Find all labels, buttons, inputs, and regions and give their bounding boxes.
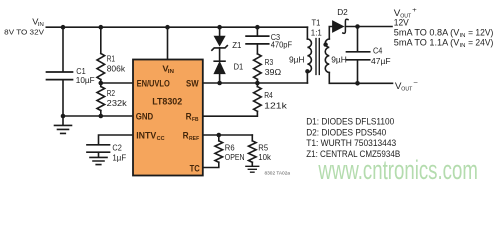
ground C2	[90, 153, 107, 165]
junction node D2/C4	[355, 24, 360, 29]
pin label GND	[136, 111, 154, 121]
wire R1 branch	[100, 27, 102, 83]
svg-text:47µF: 47µF	[371, 56, 391, 66]
svg-text:232k: 232k	[107, 98, 128, 108]
svg-text:T1: WURTH 750313443: T1: WURTH 750313443	[306, 138, 396, 148]
ground R5	[246, 166, 259, 172]
capacitor C2	[87, 145, 110, 152]
wire primary top	[306, 27, 308, 39]
wire C3 R3 branch	[256, 27, 258, 83]
label C4	[371, 45, 391, 66]
capacitor C1	[47, 72, 73, 80]
svg-text:R3: R3	[265, 57, 274, 67]
label R6	[225, 142, 245, 162]
wire VIN pin stem	[167, 27, 169, 59]
svg-text:C2: C2	[112, 143, 122, 153]
label output current line 1	[394, 28, 494, 40]
label schematic number 8302 TA02a	[265, 170, 291, 175]
label secondary 9µH	[331, 54, 347, 64]
wire TC	[203, 162, 219, 167]
junction node C1/GND	[61, 114, 66, 119]
note D1 part	[306, 116, 394, 126]
junction node C4/VOUT-	[355, 81, 360, 86]
label C2	[112, 143, 126, 163]
pin label INTVCC	[136, 131, 165, 143]
label C3	[271, 32, 292, 50]
svg-text:9µH: 9µH	[331, 54, 347, 64]
resistor R3	[254, 54, 262, 79]
wire R2 branch	[100, 83, 102, 116]
label T1	[311, 17, 322, 37]
label C1	[76, 66, 95, 85]
transformer T1 core	[316, 39, 319, 75]
svg-text:D2: DIODES PDS540: D2: DIODES PDS540	[306, 127, 386, 137]
svg-text:R5: R5	[258, 142, 268, 152]
svg-text:IN: IN	[460, 33, 466, 39]
svg-text:OUT: OUT	[401, 87, 412, 93]
label R3	[265, 57, 282, 77]
svg-text:5mA TO 0.8A (V: 5mA TO 0.8A (V	[394, 28, 460, 38]
resistor R2	[97, 87, 105, 111]
svg-text:1µF: 1µF	[112, 153, 126, 163]
pin label SW	[186, 78, 199, 88]
svg-text:C4: C4	[373, 45, 383, 55]
svg-text:806k: 806k	[107, 64, 126, 74]
note T1 part	[306, 138, 396, 148]
wire D2 to VOUT+	[345, 26, 392, 28]
svg-text:R: R	[183, 131, 189, 141]
pin label VIN	[162, 64, 174, 75]
resistor R5	[249, 141, 257, 162]
svg-text:Z1: Z1	[232, 40, 241, 50]
svg-text:D1: DIODES DFLS1100: D1: DIODES DFLS1100	[306, 116, 394, 126]
svg-text:+: +	[412, 7, 417, 14]
label output current line 2	[394, 38, 494, 50]
svg-text:OPEN: OPEN	[225, 152, 245, 162]
junction node R1/R2/EN	[99, 81, 104, 86]
junction node R2/GND	[99, 114, 104, 119]
svg-text:D2: D2	[337, 7, 348, 17]
wire primary bottom	[306, 73, 308, 84]
resistor R1	[97, 54, 105, 80]
label R1	[107, 54, 126, 74]
junction node VIN pin/rail	[165, 25, 170, 30]
wire C4 branch	[357, 27, 359, 84]
label R2	[107, 88, 128, 108]
diode D2 schottky	[333, 19, 348, 33]
svg-text:1:1: 1:1	[311, 28, 322, 38]
op-amp U1 LT8302 body	[133, 60, 203, 176]
svg-text:10k: 10k	[258, 152, 271, 162]
wire VIN rail	[46, 26, 307, 28]
label primary 9µH	[289, 54, 305, 64]
note D2 part	[306, 127, 386, 137]
pin label RFB	[186, 111, 199, 123]
svg-text:INTV: INTV	[136, 131, 157, 141]
svg-text:TC: TC	[190, 164, 201, 174]
svg-text:www.cntronics.com: www.cntronics.com	[318, 155, 478, 185]
label R4	[264, 90, 287, 111]
wire GND rail	[63, 80, 133, 116]
transformer T1 primary winding	[307, 39, 311, 73]
junction node Z1/rail	[217, 25, 222, 30]
label LT8302	[152, 95, 182, 106]
wire RREF	[203, 134, 252, 136]
transformer T1 secondary winding	[325, 39, 329, 73]
svg-text:R6: R6	[225, 142, 235, 152]
svg-text:IN: IN	[460, 43, 466, 49]
note Z1 part	[306, 149, 400, 159]
svg-text:8302 TA02a: 8302 TA02a	[265, 170, 291, 175]
svg-text:SW: SW	[186, 78, 199, 88]
wire C1 branch	[62, 27, 64, 71]
wire R4 branch	[256, 83, 258, 87]
svg-text:10µF: 10µF	[76, 75, 95, 85]
label R5	[258, 142, 271, 162]
svg-text:9µH: 9µH	[289, 54, 305, 64]
label D2	[337, 7, 348, 17]
pin label TC	[190, 164, 201, 174]
wire R6 branch	[218, 135, 220, 141]
diode D1	[214, 61, 225, 73]
wire EN/UVLO	[101, 82, 133, 84]
junction node R1/rail	[99, 25, 104, 30]
wire secondary top	[329, 27, 332, 40]
svg-text:12V: 12V	[394, 18, 409, 28]
svg-text:= 24V): = 24V)	[466, 38, 494, 48]
junction node R6/RREF	[217, 133, 222, 138]
svg-text:T1: T1	[312, 17, 321, 27]
zener Z1	[212, 36, 227, 50]
svg-text:LT8302: LT8302	[152, 95, 182, 106]
svg-text:= 12V): = 12V)	[466, 28, 494, 38]
label Z1	[232, 40, 241, 50]
wire INTVCC to C2	[99, 135, 134, 144]
svg-text:D1: D1	[234, 62, 244, 72]
wire SW net	[203, 82, 307, 84]
svg-text:EN/UVLO: EN/UVLO	[137, 78, 170, 88]
label D1	[234, 62, 244, 72]
svg-text:CC: CC	[157, 136, 166, 142]
wire RFB	[203, 111, 257, 116]
pin label EN/UVLO	[137, 78, 170, 88]
svg-text:R: R	[186, 111, 192, 121]
resistor R4	[254, 87, 262, 112]
junction node R3/R4/SW	[255, 81, 260, 86]
wire Z1 D1 branch	[219, 27, 221, 83]
junction node C3/rail	[255, 25, 260, 30]
svg-text:REF: REF	[189, 136, 200, 142]
junction node C1/rail	[61, 25, 66, 30]
junction node D1/SW	[217, 81, 222, 86]
transformer primary phase dot	[305, 69, 309, 73]
svg-text:8V TO 32V: 8V TO 32V	[4, 28, 44, 37]
ground main	[55, 116, 72, 133]
svg-text:5mA TO 1.1A (V: 5mA TO 1.1A (V	[394, 38, 460, 48]
transformer secondary phase dot	[323, 42, 327, 46]
pin label RREF	[183, 131, 200, 143]
svg-text:R2: R2	[107, 88, 116, 98]
wire secondary bottom	[329, 73, 392, 84]
label VOUT+	[394, 7, 417, 20]
svg-text:R1: R1	[107, 54, 116, 64]
svg-text:−: −	[413, 80, 418, 87]
resistor R6	[215, 141, 223, 162]
svg-text:IN: IN	[168, 69, 174, 75]
wire R5 branch	[251, 135, 253, 166]
label VIN node	[4, 17, 44, 36]
label VOUT-	[395, 80, 418, 93]
svg-text:121k: 121k	[264, 100, 287, 110]
capacitor C4	[347, 52, 370, 60]
svg-text:GND: GND	[136, 111, 154, 121]
watermark www.cntronics.com	[318, 155, 478, 185]
svg-text:FB: FB	[192, 117, 199, 123]
label 12V	[394, 18, 409, 28]
svg-text:470pF: 470pF	[271, 40, 292, 50]
svg-text:39Ω: 39Ω	[265, 67, 282, 77]
capacitor C3	[246, 36, 269, 44]
svg-text:R4: R4	[264, 90, 273, 100]
